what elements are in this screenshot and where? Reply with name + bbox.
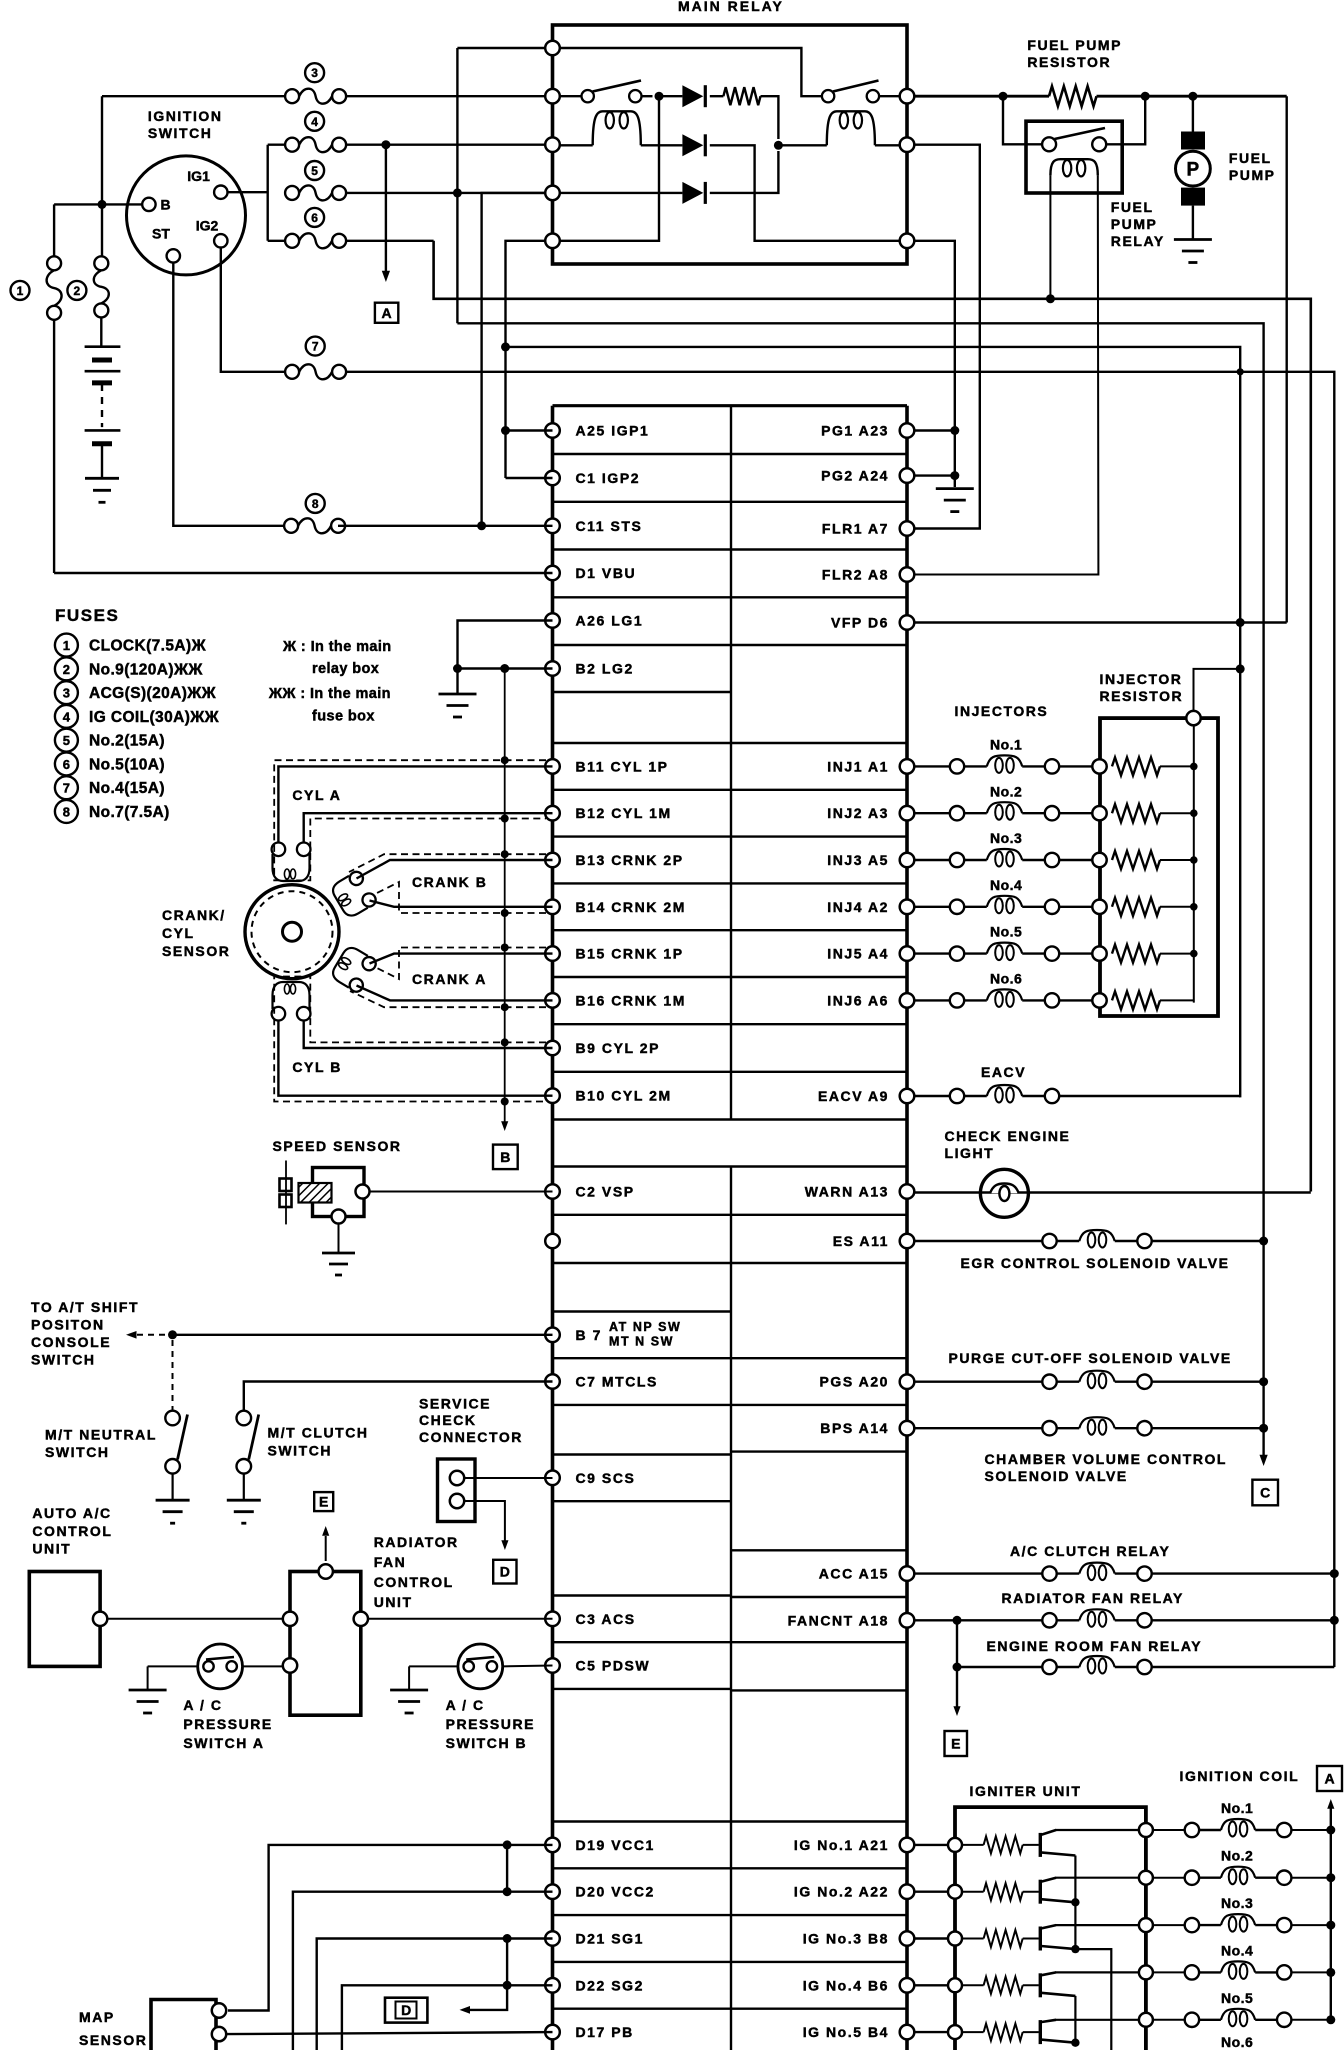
svg-text:MAP: MAP — [79, 2009, 115, 2025]
svg-text:PRESSURE: PRESSURE — [446, 1716, 535, 1732]
svg-text:No.7(7.5A): No.7(7.5A) — [89, 804, 170, 821]
SG tie wire — [506, 1939, 508, 1986]
svg-text:INJ6 A6: INJ6 A6 — [827, 992, 889, 1008]
svg-text:SWITCH B: SWITCH B — [446, 1735, 528, 1751]
svg-text:AT NP SW: AT NP SW — [609, 1320, 681, 1334]
svg-text:M/T NEUTRAL: M/T NEUTRAL — [45, 1426, 157, 1442]
junction node coil bus 3 — [1326, 1921, 1335, 1930]
fuse 2 label — [67, 281, 86, 300]
radiator fan right pin — [354, 1612, 368, 1626]
junction node resistor bus 5 — [1190, 950, 1198, 958]
service check pin 2 — [450, 1494, 464, 1508]
injector No.4 to resistor — [1059, 906, 1092, 908]
ignition switch body — [127, 156, 246, 275]
injector No.3 to resistor — [1059, 859, 1092, 861]
logic ground — [439, 693, 477, 696]
svg-text:SWITCH: SWITCH — [148, 125, 213, 141]
svg-text:BPS A14: BPS A14 — [820, 1420, 889, 1436]
CYL A shield — [274, 760, 546, 880]
fuse 7 line to relays riser — [346, 372, 1334, 1667]
map sensor pin 1 — [212, 2003, 226, 2017]
svg-text:SWITCH: SWITCH — [268, 1442, 333, 1458]
ECU pin A25 IGP1 — [545, 423, 560, 438]
svg-text:B 7: B 7 — [576, 1327, 602, 1343]
svg-text:D: D — [500, 1564, 510, 1580]
igniter right pin 4 — [1139, 1965, 1153, 1979]
svg-text:IG No.1 A21: IG No.1 A21 — [794, 1837, 889, 1853]
wire resistor to coil2 node — [761, 96, 779, 139]
ECU connector box outline — [551, 406, 555, 2050]
wire to connector E (bottom) — [956, 1667, 958, 1708]
junction node a/c clutch relay — [1330, 1569, 1339, 1578]
wire speed sensor to C2 VSP — [370, 1191, 553, 1193]
ECU C9 SCS cell borders — [553, 1453, 732, 1455]
junction node SG1 — [503, 1934, 512, 1943]
wire A26 LG1 to logic ground — [458, 621, 553, 669]
svg-text:No.5: No.5 — [990, 924, 1022, 940]
svg-text:fuse box: fuse box — [312, 709, 375, 725]
CRANK A shield — [377, 948, 546, 980]
connector A box (top) — [375, 303, 398, 323]
svg-text:EACV A9: EACV A9 — [818, 1088, 889, 1104]
pressure switch A ground — [129, 1689, 167, 1692]
main relay resistor — [710, 95, 724, 97]
svg-text:A26 LG1: A26 LG1 — [576, 613, 644, 629]
svg-text:CONTROL: CONTROL — [32, 1523, 112, 1539]
injector No.6 coil — [950, 993, 964, 1007]
igniter pin left 1 — [948, 1838, 962, 1852]
ECU pin D19 VCC1 — [545, 1838, 560, 1853]
svg-text:B16 CRNK 1M: B16 CRNK 1M — [576, 992, 686, 1008]
injector No.5 wire — [914, 952, 950, 954]
svg-text:CYL B: CYL B — [292, 1059, 342, 1075]
ECU pin B14 CRNK 2M — [545, 900, 560, 915]
speed sensor body — [313, 1168, 365, 1217]
svg-text:No.6: No.6 — [990, 971, 1022, 987]
pressure switch B ground — [390, 1689, 428, 1692]
svg-text:B12 CYL 1M: B12 CYL 1M — [576, 805, 672, 821]
fuse 7 — [285, 365, 299, 379]
shield node CYL B 2 — [501, 1098, 509, 1106]
svg-text:B2 LG2: B2 LG2 — [576, 661, 634, 677]
fuse 8 — [284, 519, 298, 533]
svg-text:No.4(15A): No.4(15A) — [89, 780, 165, 797]
junction node shield bus — [500, 664, 509, 673]
a/c pressure switch A — [198, 1644, 243, 1689]
ECU pin IG No.5 B4 — [900, 2025, 915, 2040]
igniter right pin 3 — [1139, 1918, 1153, 1932]
junction node coil bus 5 — [1326, 2015, 1335, 2024]
ECU pin C1 IGP2 — [545, 471, 560, 486]
svg-text:UNIT: UNIT — [32, 1541, 71, 1557]
connector D box (bottom) — [385, 1998, 427, 2023]
junction node coil to fuse6 line — [1046, 294, 1055, 303]
svg-text:EGR CONTROL SOLENOID VALVE: EGR CONTROL SOLENOID VALVE — [961, 1255, 1230, 1271]
main relay pin 6 (right top) — [900, 89, 915, 104]
svg-text:FUEL PUMP: FUEL PUMP — [1027, 37, 1122, 53]
svg-text:A25 IGP1: A25 IGP1 — [576, 423, 650, 439]
main relay pin 5 (left) — [545, 234, 560, 249]
svg-text:B15 CRNK 1P: B15 CRNK 1P — [576, 946, 684, 962]
svg-text:C: C — [1260, 1485, 1270, 1501]
svg-text:6: 6 — [63, 757, 70, 772]
main relay coil 2 — [778, 144, 826, 146]
junction node B7 — [168, 1330, 177, 1339]
ignition coil No.4 — [1153, 1971, 1185, 1973]
wire service check to connector D — [464, 1501, 505, 1543]
M/T clutch ground — [227, 1499, 261, 1502]
wire diode3 up to coil node — [710, 151, 779, 193]
svg-text:PURGE CUT-OFF SOLENOID VALVE: PURGE CUT-OFF SOLENOID VALVE — [949, 1350, 1232, 1366]
svg-text:B10 CYL 2M: B10 CYL 2M — [576, 1088, 672, 1104]
junction node at fuse 2 branch — [98, 200, 107, 209]
main relay pin 2 (left) — [545, 89, 560, 104]
fuse 3 — [285, 89, 299, 103]
connector E box (radiator fan) — [314, 1492, 333, 1511]
radiator fan left pin 2 — [283, 1658, 297, 1672]
junction node SG2 — [503, 1981, 512, 1990]
igniter resistor 2 — [962, 1891, 984, 1893]
svg-text:5: 5 — [63, 733, 70, 748]
wire IG1 to fuse bracket — [228, 191, 268, 193]
auto a/c control unit box — [29, 1572, 100, 1667]
CRANK B shield — [349, 854, 546, 872]
svg-text:A/C CLUTCH RELAY: A/C CLUTCH RELAY — [1010, 1543, 1170, 1559]
power ground symbol — [936, 487, 974, 490]
wire diode2 to right contact — [710, 145, 900, 241]
speed sensor ground — [322, 1252, 355, 1255]
junction node chamber valve — [1259, 1424, 1268, 1433]
svg-text:RESISTOR: RESISTOR — [1027, 54, 1111, 70]
wire fuse3 to main relay pin2 — [346, 95, 553, 97]
ECU pin B7 AT NP SW / MT N SW — [545, 1328, 560, 1343]
wire engine room fan relay to fuse7 riser — [1152, 1666, 1335, 1668]
wire bus up to fuse 3 line — [101, 96, 103, 204]
wire fuse6 output — [346, 240, 434, 242]
svg-text:SOLENOID VALVE: SOLENOID VALVE — [985, 1468, 1128, 1484]
wire engine room fan branch — [956, 1620, 958, 1667]
igniter transistor Q4 — [1039, 1973, 1042, 1997]
fuel pump ground — [1174, 238, 1212, 241]
fuse 7 label — [306, 337, 325, 356]
injector resistor element 6 — [1112, 991, 1160, 1009]
ECU pin C7 MTCLS — [545, 1374, 560, 1389]
ECU pin INJ5 A4 — [900, 946, 915, 961]
igniter collector row 3 — [1055, 1924, 1140, 1926]
svg-text:SENSOR: SENSOR — [79, 2032, 147, 2048]
fuse 4 label — [305, 112, 324, 131]
svg-text:No.1: No.1 — [1221, 1800, 1253, 1816]
ECU pin IG No.4 B6 — [900, 1978, 915, 1993]
ECU pin FANCNT A18 — [900, 1613, 915, 1628]
injector No.2 wire — [914, 812, 950, 814]
ECU pin PGS A20 — [900, 1374, 915, 1389]
ECU pin INJ6 A6 — [900, 993, 915, 1008]
junction node coil bus 1 — [1326, 1826, 1335, 1835]
wire CRANK A 2 to B16 — [357, 986, 553, 1001]
igniter pin left 4 — [948, 1978, 962, 1992]
junction node coil2 feed — [774, 141, 783, 150]
main relay output line — [914, 95, 1049, 98]
ECU pin VFP D6 — [900, 615, 915, 630]
fuse 2 — [94, 256, 108, 270]
CYL A pickup — [272, 843, 286, 857]
fuse legend item 6 — [55, 752, 78, 775]
fuse 8 label — [306, 494, 325, 513]
wire B7 — [173, 1334, 553, 1336]
igniter right pin 2 — [1139, 1871, 1153, 1885]
igniter transistor Q3 — [1039, 1927, 1042, 1951]
svg-text:No.2: No.2 — [1221, 1848, 1253, 1864]
M/T neutral ground — [156, 1499, 190, 1502]
ECU pin INJ4 A2 — [900, 900, 915, 915]
svg-text:No.4: No.4 — [990, 877, 1022, 893]
igniter collector row 5 — [1055, 2019, 1140, 2021]
svg-text:FUEL: FUEL — [1229, 150, 1272, 166]
svg-text:B9 CYL 2P: B9 CYL 2P — [576, 1040, 661, 1056]
svg-text:Ж : In the main: Ж : In the main — [282, 639, 392, 655]
ECU pin B13 CRNK 2P — [545, 853, 560, 868]
VFP riser from resistor line — [1285, 96, 1287, 622]
svg-text:D: D — [401, 2002, 411, 2018]
ECU pin B16 CRNK 1M — [545, 993, 560, 1008]
junction node A25 branch — [501, 426, 510, 435]
junction node VFP/IGP riser — [1236, 618, 1245, 627]
svg-text:TO A/T SHIFT: TO A/T SHIFT — [31, 1299, 139, 1315]
terminal IG1 — [214, 186, 227, 199]
wire CRANK A 1 to B15 — [370, 954, 553, 964]
ignition coil common bus — [1330, 1808, 1332, 2022]
svg-text:No.3: No.3 — [1221, 1895, 1253, 1911]
wire coil 1 to bus — [1291, 1829, 1330, 1831]
junction node fuse4/connector A — [381, 140, 390, 149]
injector No.1 to resistor — [1059, 765, 1092, 767]
shield node CYL B 1 — [501, 1038, 509, 1046]
junction node PG2 — [950, 471, 959, 480]
svg-text:INJ5 A4: INJ5 A4 — [827, 946, 889, 962]
svg-text:SPEED SENSOR: SPEED SENSOR — [273, 1138, 402, 1154]
wire FANCNT A18 — [914, 1619, 1042, 1621]
junction node fuse5 / relay pin1 riser — [453, 188, 462, 197]
ECU pin B15 CRNK 1P — [545, 946, 560, 961]
map sensor pin 2 — [212, 2027, 226, 2041]
svg-text:4: 4 — [311, 115, 318, 129]
svg-text:No.1: No.1 — [990, 737, 1022, 753]
M/T clutch switch — [237, 1411, 252, 1426]
svg-text:IG COIL(30A)ЖЖ: IG COIL(30A)ЖЖ — [89, 709, 220, 726]
purge cut-off solenoid valve coil — [1042, 1375, 1056, 1389]
wire coil 5 to bus — [1291, 2019, 1330, 2021]
igniter resistor 5 — [962, 2031, 984, 2033]
injector No.4 wire — [914, 906, 950, 908]
wire fuse2 to battery — [100, 317, 102, 346]
battery ground — [85, 477, 119, 480]
svg-text:FUSES: FUSES — [55, 606, 119, 625]
ECU pin BPS A14 — [900, 1421, 915, 1436]
svg-text:FLR2 A8: FLR2 A8 — [822, 567, 889, 583]
igniter transistor Q5 — [1039, 2020, 1042, 2044]
wire CRANK B 2 to B14 — [370, 901, 553, 907]
map sensor box — [151, 2000, 216, 2050]
igniter resistor 4 — [962, 1984, 984, 1986]
svg-text:C7 MTCLS: C7 MTCLS — [576, 1374, 658, 1390]
svg-text:CYL A: CYL A — [292, 787, 341, 803]
fuse6 line to warning light riser — [434, 241, 1311, 1192]
svg-text:CONSOLE: CONSOLE — [31, 1334, 111, 1350]
ECU pin C11 STS — [545, 519, 560, 534]
speed sensor output pin — [356, 1185, 370, 1199]
svg-text:VFP D6: VFP D6 — [831, 615, 889, 631]
ECU pin FLR1 A7 — [900, 521, 915, 536]
wire auto a/c to radiator fan control — [107, 1618, 283, 1620]
ECU pin B2 LG2 — [545, 661, 560, 676]
junction node fan branch — [953, 1616, 962, 1625]
wire coil 4 to bus — [1291, 1971, 1330, 1973]
wire battery to ground — [101, 444, 103, 479]
wire IG No.4 — [914, 1984, 948, 1986]
svg-text:IG No.4 B6: IG No.4 B6 — [803, 1977, 889, 1993]
svg-text:C9 SCS: C9 SCS — [576, 1470, 636, 1486]
svg-text:WARN A13: WARN A13 — [805, 1184, 889, 1200]
wire neutral switch ground — [172, 1474, 174, 1501]
svg-text:D1 VBU: D1 VBU — [576, 565, 637, 581]
svg-text:SENSOR: SENSOR — [162, 943, 230, 959]
main relay pin 1 (left) — [545, 41, 560, 56]
igniter transistor Q1 — [1039, 1833, 1042, 1857]
wire BPS A14 — [914, 1427, 1042, 1429]
wire PG2 A24 — [914, 474, 955, 476]
fuse 5 — [285, 186, 299, 200]
svg-text:D17 PB: D17 PB — [576, 2024, 634, 2040]
CRANK B pickup — [329, 869, 378, 919]
igniter emitter bus 2 — [1074, 1996, 1076, 2043]
svg-text:IGNITION COIL: IGNITION COIL — [1180, 1768, 1300, 1784]
ECU pin C3 ACS — [545, 1612, 560, 1627]
shield ground bus to connector B — [504, 669, 506, 1123]
injector No.1 wire — [914, 765, 950, 767]
svg-text:E: E — [319, 1494, 328, 1510]
wire fuse8 to C11 STS — [338, 525, 553, 527]
svg-text:SWITCH A: SWITCH A — [183, 1735, 264, 1751]
igniter resistor 3 — [962, 1938, 984, 1940]
fuel pump relay contact wire left — [1003, 96, 1042, 144]
CRANK A pickup — [329, 944, 378, 994]
IG1 line to solenoid valves riser — [457, 323, 1263, 1460]
svg-text:1: 1 — [17, 284, 24, 298]
wire PG1 A23 — [914, 429, 955, 431]
svg-text:SERVICE: SERVICE — [419, 1396, 491, 1412]
wire fuse5 to main relay pin4 — [346, 192, 553, 194]
svg-text:RADIATOR FAN RELAY: RADIATOR FAN RELAY — [1002, 1590, 1184, 1606]
svg-text:ST: ST — [152, 226, 170, 242]
ECU section C cell borders — [553, 1165, 908, 1167]
igniter right pin 5 — [1139, 2013, 1153, 2027]
ECU pin A26 LG1 — [545, 613, 560, 628]
fuse legend item 2 — [55, 657, 78, 680]
svg-text:IG No.5 B4: IG No.5 B4 — [803, 2024, 889, 2040]
wire IG2 to fuse 7 — [221, 248, 285, 372]
svg-text:1: 1 — [63, 638, 70, 653]
injector resistor element 5 — [1112, 945, 1160, 963]
dashed wire to neutral switch — [172, 1340, 174, 1411]
main relay diode 2 — [682, 134, 703, 156]
wire radiator fan relay to fuse7 riser — [1152, 1619, 1335, 1621]
connector E box (bottom) — [945, 1731, 968, 1756]
svg-text:INJ1 A1: INJ1 A1 — [827, 758, 889, 774]
wire D20 VCC2 down — [293, 1892, 553, 2050]
igniter collector row 2 — [1055, 1877, 1140, 1879]
shield node CYL A 2 — [501, 815, 509, 823]
crank/cyl sensor body — [245, 885, 339, 979]
terminal B — [142, 198, 155, 211]
svg-text:B11 CYL 1P: B11 CYL 1P — [576, 758, 669, 774]
svg-text:SWITCH: SWITCH — [45, 1444, 110, 1460]
fuel pump feed wire — [1192, 96, 1194, 131]
shield node CRANK B 1 — [501, 850, 509, 858]
ignition coil No.3 — [1153, 1924, 1185, 1926]
wire fuse3 feed — [102, 95, 285, 97]
injector No.6 to resistor — [1059, 999, 1092, 1001]
CYL B pickup — [272, 1007, 286, 1021]
chamber volume control solenoid valve coil — [1042, 1421, 1056, 1435]
fuel pump resistor — [1049, 86, 1097, 106]
junction node radiator fan relay — [1330, 1616, 1339, 1625]
ECU section A cell borders — [553, 453, 908, 455]
ECU pin C2 VSP — [545, 1184, 560, 1199]
wire B terminal to battery bus — [54, 203, 142, 205]
EGR control solenoid valve coil — [1042, 1234, 1056, 1248]
svg-text:A: A — [1324, 1771, 1334, 1787]
ECU pin B11 CYL 1P — [545, 759, 560, 774]
svg-text:C3 ACS: C3 ACS — [576, 1611, 636, 1627]
wire D19 VCC1 to MAP — [228, 1845, 553, 2011]
svg-text:CHAMBER VOLUME CONTROL: CHAMBER VOLUME CONTROL — [985, 1451, 1228, 1467]
igniter emitter bus 1 — [1074, 1856, 1076, 1903]
svg-text:IGNITION: IGNITION — [148, 108, 223, 124]
wire a/c clutch relay to fuse7 riser — [1152, 1572, 1335, 1574]
svg-text:INJ2 A3: INJ2 A3 — [827, 805, 889, 821]
igniter right pin 1 — [1139, 1823, 1153, 1837]
terminal ST — [167, 249, 180, 262]
fuel pump relay coil — [1050, 159, 1097, 175]
wire IG No.5 — [914, 2031, 948, 2033]
engine room fan relay coil — [1042, 1660, 1056, 1674]
junction node VCC2 — [503, 1887, 512, 1896]
wire WARN A13 — [914, 1191, 1311, 1193]
igniter unit box — [955, 1807, 1146, 2050]
fuel pump relay contact wire right — [1106, 96, 1145, 144]
terminal IG2 — [214, 234, 227, 247]
ECU pin ACC A15 — [900, 1566, 915, 1581]
fuse 4-5-6 bracket — [267, 145, 269, 241]
junction node resistor common/IGP riser — [1236, 664, 1245, 673]
ECU pin D1 VBU — [545, 566, 560, 581]
fuse legend item 5 — [55, 729, 78, 752]
svg-text:No.5: No.5 — [1221, 1990, 1253, 2006]
wire main relay pin1 to external riser — [457, 47, 546, 49]
ECU section B cell borders — [553, 742, 908, 744]
svg-text:PG2 A24: PG2 A24 — [821, 468, 889, 484]
wire coil 2 to bus — [1291, 1877, 1330, 1879]
wire to sensor ground — [338, 1224, 340, 1254]
wire EACV — [914, 1095, 950, 1097]
wire coil 3 to bus — [1291, 1924, 1330, 1926]
svg-text:ES A11: ES A11 — [833, 1233, 889, 1249]
svg-text:No.2: No.2 — [990, 783, 1022, 799]
fuel pump relay box — [1026, 121, 1122, 193]
junction node fuel pump feed — [1188, 92, 1197, 101]
svg-text:IGNITER UNIT: IGNITER UNIT — [970, 1783, 1082, 1799]
